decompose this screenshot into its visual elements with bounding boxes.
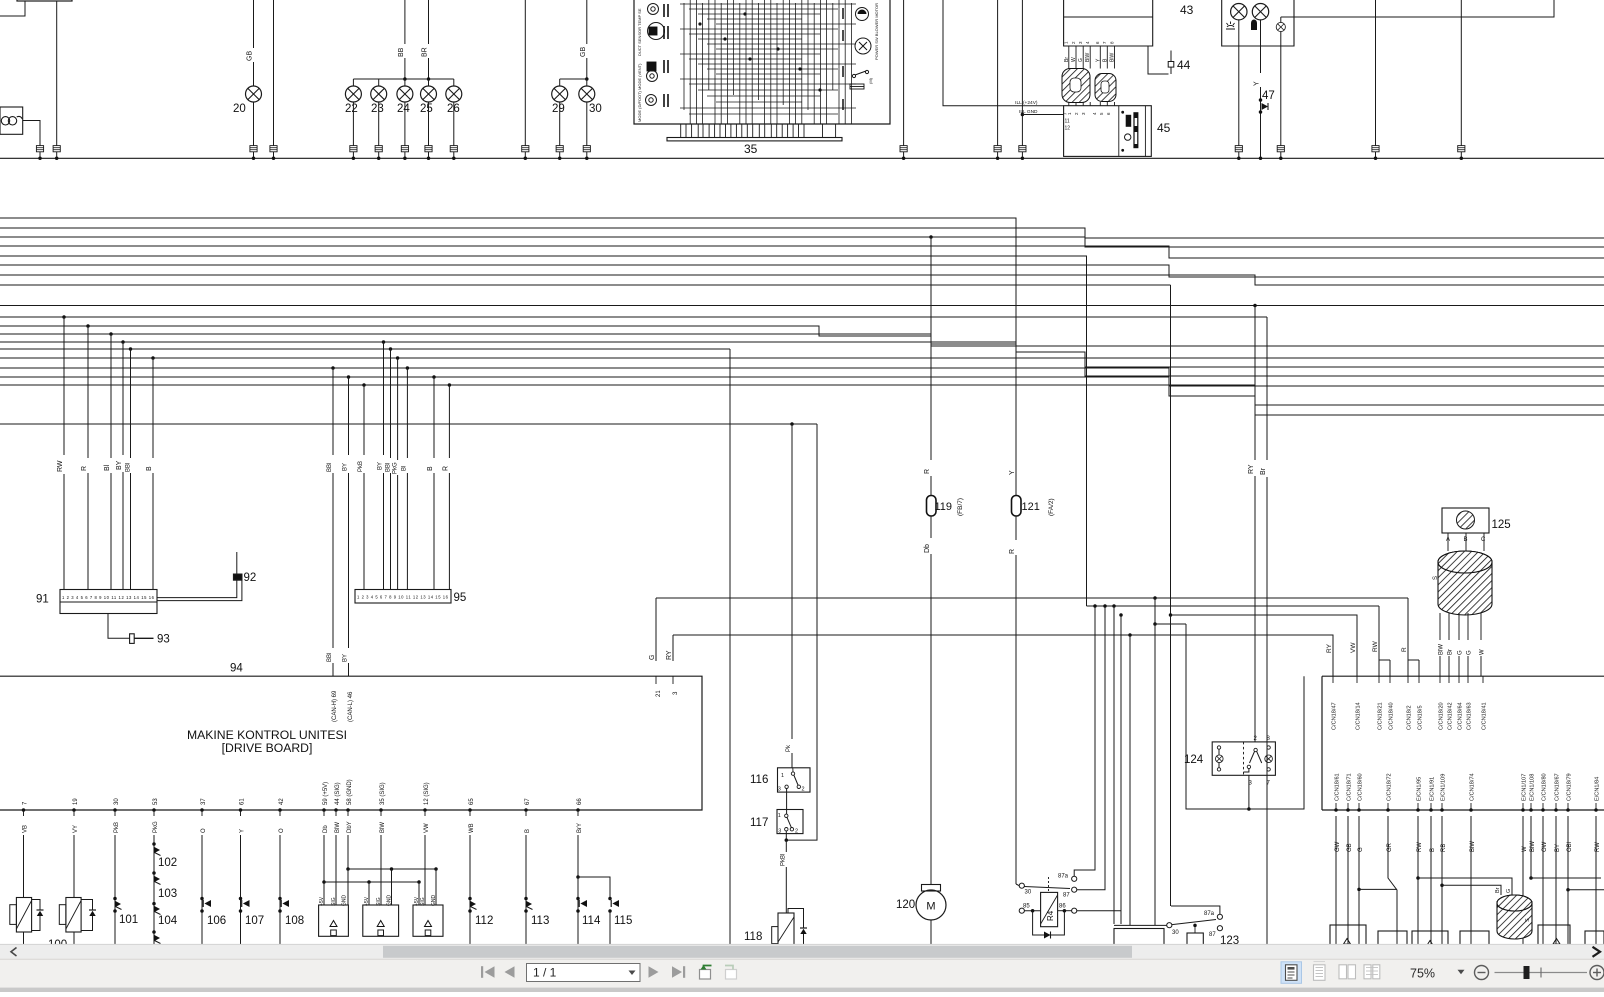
svg-text:C/CN18/71: C/CN18/71: [1347, 773, 1353, 801]
wire Bl to connector 95: [406, 366, 410, 370]
load box 6: [1585, 931, 1604, 950]
svg-text:113: 113: [531, 915, 549, 927]
block 35 internal wiring mesh: [680, 0, 856, 124]
svg-text:Db: Db: [323, 825, 329, 833]
toolbar next view icon disabled: [726, 970, 737, 980]
load box 4: [1460, 931, 1489, 950]
wire x525 to ground bus: [524, 0, 526, 146]
svg-text:43: 43: [1180, 3, 1194, 17]
wire GB to lamp 20: [253, 0, 255, 48]
cluster lamp 1: [1231, 4, 1247, 20]
svg-text:E/CN1/84: E/CN1/84: [1595, 777, 1601, 801]
harness wire B4: [0, 334, 1604, 358]
wire BlW SIG 2: [380, 835, 382, 905]
wire 87a up: [1074, 606, 1095, 876]
svg-text:VW: VW: [424, 823, 430, 833]
svg-text:C/CN18/20: C/CN18/20: [1439, 702, 1445, 730]
scrollbar thumb: [383, 946, 1132, 958]
svg-text:BY: BY: [378, 462, 384, 470]
wire GB down: [1347, 816, 1349, 950]
wire BY to connector 95: [382, 340, 386, 344]
wire VB down to actuator: [23, 835, 25, 898]
svg-text:75%: 75%: [1410, 967, 1435, 981]
connector 92: [234, 574, 242, 580]
svg-text:B: B: [525, 829, 531, 833]
svg-text:BBl: BBl: [386, 463, 392, 472]
wire VW SIG 3: [424, 835, 426, 905]
toolbar page number box: [527, 964, 641, 982]
svg-text:WB: WB: [469, 823, 475, 833]
svg-text:24: 24: [397, 103, 410, 115]
svg-text:C/CN18/5: C/CN18/5: [1418, 705, 1424, 730]
toolbar zoom slider: [1495, 972, 1588, 974]
svg-text:59 (+5V): 59 (+5V): [323, 782, 329, 805]
svg-text:R4: R4: [1046, 910, 1055, 921]
toolbar background: [0, 959, 1604, 992]
lamp 30: [579, 86, 595, 102]
wire R to connector 95: [448, 383, 452, 387]
harness wire B5: [0, 342, 1604, 367]
harness wire B1 (RY): [0, 305, 1604, 307]
svg-text:MODE (D/FOOT): MODE (D/FOOT): [637, 90, 642, 122]
wire connector 91 to 93: [108, 614, 130, 639]
connector 95: [355, 590, 451, 604]
svg-text:RW: RW: [57, 460, 64, 472]
svg-text:Y: Y: [1254, 81, 1261, 86]
wire BBl to connector 95: [389, 347, 393, 351]
lamp 25: [421, 86, 437, 102]
svg-text:MAKINE KONTROL UNITESI: MAKINE KONTROL UNITESI: [187, 728, 347, 742]
svg-text:101: 101: [119, 914, 138, 926]
lamp 29: [552, 86, 568, 102]
svg-text:C/CN18/61: C/CN18/61: [1335, 773, 1341, 801]
svg-text:C/CN18/72: C/CN18/72: [1387, 773, 1393, 801]
svg-text:BB: BB: [398, 47, 405, 57]
diode chain 102 103 104: [153, 835, 155, 950]
wire RB down with branch to cylinder: [1441, 816, 1443, 950]
harness wire B2 (Br): [0, 316, 1267, 318]
svg-text:C/CN18/63: C/CN18/63: [1467, 702, 1473, 730]
wire RY drop to connector 124: [1254, 306, 1256, 461]
wire col 1130 down: [1128, 633, 1132, 637]
wire R to connector 91: [86, 324, 90, 328]
svg-text:GB: GB: [580, 47, 587, 57]
svg-text:(M): (M): [868, 77, 873, 84]
svg-text:E/CN1/107: E/CN1/107: [1522, 774, 1528, 801]
block 35 bottom pin wires: [681, 124, 836, 138]
wire 87a of 123 up: [1171, 906, 1220, 914]
svg-text:PkG: PkG: [393, 462, 399, 474]
wire RW 84 down: [1595, 816, 1597, 950]
connector 93: [130, 634, 135, 644]
cluster icon bulb: [1251, 20, 1257, 31]
svg-text:66: 66: [577, 798, 583, 805]
control panel block 35 outline: [634, 0, 890, 124]
wire OBl down: [1567, 816, 1569, 950]
svg-text:GND: GND: [387, 895, 393, 907]
wire 86 right: [1077, 615, 1121, 911]
toolbar two page continuous icon: [1364, 965, 1371, 979]
wire ILL +24V: [943, 0, 1064, 106]
svg-text:C/CN18/80: C/CN18/80: [1542, 773, 1548, 801]
svg-text:106: 106: [207, 915, 226, 927]
wire PkBl to 118: [785, 831, 787, 840]
block 35 left side sensor icons: [646, 4, 669, 108]
fuse 119: [927, 496, 937, 517]
wire RW to connector 91: [62, 315, 66, 319]
cluster icon light: [1226, 22, 1235, 30]
wire x817 drop to 117 pin 2: [786, 424, 817, 840]
svg-text:(CAN-H) 69: (CAN-H) 69: [332, 690, 338, 722]
svg-text:E/CN1/95: E/CN1/95: [1417, 777, 1423, 801]
wire ILL GND: [1021, 0, 1023, 146]
svg-text:45: 45: [1157, 121, 1171, 135]
svg-text:BlW: BlW: [1439, 644, 1445, 655]
relay R4 pins: [1019, 883, 1024, 888]
wires shield connector to pins: [1439, 613, 1445, 676]
toolbar last page button: [672, 966, 682, 978]
sensor unit 2: [363, 905, 399, 936]
svg-text:121: 121: [1022, 501, 1040, 513]
actuator 100a: [16, 898, 31, 933]
U-wire via 1186: [1186, 624, 1304, 809]
svg-text:116: 116: [750, 774, 768, 786]
svg-text:30: 30: [589, 103, 602, 115]
wire BB feed to lamps 22-26: [404, 0, 406, 44]
wire BY down: [1555, 816, 1557, 950]
wire BY CAN-L: [347, 375, 351, 379]
svg-text:W: W: [1071, 57, 1077, 62]
svg-text:104: 104: [158, 915, 178, 927]
cluster lamp 2: [1252, 4, 1268, 20]
wire cluster lamp3 to ground bus: [1280, 32, 1282, 146]
svg-text:47: 47: [1262, 90, 1275, 102]
wire B down: [1430, 816, 1432, 950]
svg-text:(FA/2): (FA/2): [1048, 498, 1055, 516]
switch 123: [1167, 923, 1172, 928]
svg-text:SIG: SIG: [331, 897, 337, 906]
svg-text:103: 103: [158, 888, 177, 900]
G line to R pins: [656, 597, 1408, 599]
svg-text:95: 95: [454, 592, 467, 604]
svg-text:C/CN18/2: C/CN18/2: [1407, 705, 1413, 730]
wire B to connector 95: [432, 375, 436, 379]
connector 91: [60, 590, 157, 614]
wire B to connector 91: [151, 356, 155, 360]
wire buzzer to ground bus: [23, 121, 40, 146]
wire cluster lamp1 to ground bus: [1238, 20, 1240, 146]
svg-text:2: 2: [802, 787, 805, 793]
lamp 23: [371, 86, 387, 102]
harness wire A3 (R): [0, 237, 1604, 247]
svg-text:44: 44: [1177, 58, 1191, 72]
svg-text:92: 92: [244, 572, 257, 584]
svg-text:BlW: BlW: [1110, 53, 1116, 62]
svg-text:25: 25: [420, 103, 433, 115]
svg-text:R: R: [1401, 647, 1408, 652]
svg-text:35 (SIG): 35 (SIG): [380, 782, 386, 805]
wire top-left unit down to ground bus: [56, 1, 58, 146]
toolbar single page view icon selected: [1281, 962, 1302, 984]
horizontal scrollbar track: [0, 944, 1604, 959]
GND link wire: [348, 868, 436, 870]
svg-text:E/CN1/109: E/CN1/109: [1441, 774, 1447, 801]
svg-text:112: 112: [475, 915, 493, 927]
tie wire lamps 29-30: [560, 78, 587, 80]
load box 1: [1330, 925, 1366, 950]
svg-text:120: 120: [896, 899, 915, 911]
svg-text:ILL (+24V): ILL (+24V): [1015, 100, 1038, 106]
unit 45 internal parts: [1126, 115, 1132, 127]
+5V link wire: [324, 881, 419, 883]
wire GW down: [1335, 816, 1337, 950]
connector block C/CN18 top edge: [1321, 676, 1323, 810]
svg-text:RY: RY: [1248, 464, 1255, 474]
svg-text:G: G: [1506, 889, 1512, 893]
svg-text:C/CN18/41: C/CN18/41: [1482, 702, 1488, 730]
svg-text:(FB/7): (FB/7): [957, 498, 964, 516]
wire 43 to diode 44: [1148, 46, 1169, 74]
toolbar zoom out button: [1475, 966, 1489, 980]
wire col 1170 down to switch 123: [1170, 615, 1172, 906]
wire from top-left unit to left edge: [0, 1, 25, 16]
wire OW down: [1542, 816, 1544, 950]
wire col 1121 lower: [1120, 911, 1122, 924]
svg-text:BBl: BBl: [126, 463, 132, 472]
relay R4 diode loop: [1033, 911, 1065, 935]
harness wire A7: [0, 275, 1604, 285]
wire x273 to ground bus: [273, 0, 275, 146]
svg-text:PkG: PkG: [153, 821, 159, 833]
wire R drop to fuse 119: [930, 237, 932, 460]
wire x1375 to ground bus: [1375, 0, 1377, 146]
wire G down with branch: [1358, 816, 1360, 950]
harness wire A5 (feeder): [0, 256, 1087, 606]
connector 124: [1212, 742, 1275, 775]
wire BR feed: [428, 0, 430, 44]
svg-text:117: 117: [750, 817, 768, 829]
svg-text:Y: Y: [239, 829, 245, 833]
lamp 26: [446, 86, 462, 102]
svg-text:DbY: DbY: [347, 821, 353, 833]
harness wire B6: [0, 348, 730, 350]
svg-text:S: S: [1433, 576, 1439, 580]
pins 1-8 of unit 43: [1068, 46, 1070, 69]
svg-text:BR: BR: [422, 47, 429, 57]
diodes 114 115: [577, 835, 579, 877]
svg-text:GND: GND: [431, 895, 437, 907]
svg-text:B: B: [146, 466, 153, 471]
wire BBl CAN-H: [331, 366, 335, 370]
svg-text:S: S: [1525, 918, 1531, 922]
svg-text:G: G: [1467, 650, 1473, 655]
svg-text:1: 1: [778, 813, 781, 819]
svg-text:37: 37: [201, 798, 207, 805]
svg-text:102: 102: [158, 857, 177, 869]
wire Pk to switch 116: [791, 424, 793, 739]
lamp 24: [397, 86, 413, 102]
svg-text:ILL GND: ILL GND: [1019, 109, 1038, 115]
svg-text:C: C: [1481, 537, 1486, 543]
svg-text:DUCT SENSOR: DUCT SENSOR: [637, 27, 642, 56]
svg-text:C/CN18/74: C/CN18/74: [1470, 773, 1476, 801]
cluster small lamp 3: [1276, 22, 1285, 31]
svg-text:BlW: BlW: [1085, 53, 1091, 62]
feeder to VW pin: [1171, 615, 1358, 676]
diode 107: [240, 835, 242, 950]
feeder wire col 1085 to RW pins: [1087, 605, 1380, 607]
svg-text:PkB: PkB: [358, 461, 364, 472]
svg-text:20: 20: [233, 103, 246, 115]
svg-text:GB: GB: [247, 51, 254, 61]
svg-text:R: R: [81, 466, 88, 471]
svg-text:MODE (VENT): MODE (VENT): [637, 63, 642, 90]
diode 106: [201, 835, 203, 950]
svg-text:35: 35: [744, 142, 758, 156]
left boxes near 123: [1114, 929, 1164, 951]
svg-text:30: 30: [1172, 930, 1179, 936]
hatched grommet connector right: [1095, 74, 1116, 102]
svg-text:R: R: [1009, 549, 1016, 554]
harness wire B3: [0, 326, 1604, 346]
hatched grommet connector left: [1062, 69, 1090, 103]
svg-text:1 2 3 4 5 6 7 8 9 10 11 12 13: 1 2 3 4 5 6 7 8 9 10 11 12 13 14 15 16: [357, 595, 449, 600]
shielded connector cylinder bottom: [1497, 895, 1532, 939]
lamp 22: [345, 86, 361, 102]
load box 2: [1378, 931, 1407, 950]
load box 3: [1412, 931, 1448, 950]
svg-text:Br: Br: [1260, 467, 1267, 475]
wire 124 pin 3 down: [1248, 775, 1250, 809]
svg-text:58 (GND): 58 (GND): [347, 779, 353, 805]
svg-text:BBl: BBl: [327, 653, 333, 662]
component 44: [1170, 51, 1172, 62]
svg-text:M: M: [926, 901, 935, 913]
drive board bottom pins and wire labels: [22, 801, 29, 833]
svg-text:C/CN18/64: C/CN18/64: [1458, 702, 1464, 730]
sensor unit 3: [413, 905, 443, 936]
svg-text:115: 115: [614, 915, 632, 927]
wire connector 91 to 92: [157, 552, 237, 598]
wire 87 fan: [1077, 606, 1105, 890]
speaker unit 125: [1442, 508, 1489, 533]
harness wire A4: [0, 246, 1604, 258]
wire x730 drop: [729, 349, 731, 950]
svg-text:23: 23: [371, 103, 384, 115]
svg-text:42: 42: [279, 798, 285, 805]
wire Br through 124 down: [1266, 744, 1268, 950]
svg-text:119: 119: [935, 501, 953, 513]
toolbar two page view icon: [1339, 965, 1347, 979]
svg-text:BY: BY: [343, 463, 349, 471]
wire BlW SIG 1: [335, 835, 337, 905]
svg-text:PkB: PkB: [114, 822, 120, 833]
harness wire A8 (feeder): [0, 284, 1171, 286]
wire DbY GND feed: [347, 835, 349, 869]
wire x903 to ground bus: [903, 0, 905, 146]
harness wire B11: [0, 423, 817, 425]
wire motor 120 down: [930, 920, 932, 950]
R pin bridge: [1408, 598, 1419, 660]
svg-text:BY: BY: [116, 460, 123, 470]
svg-text:1: 1: [781, 773, 784, 779]
wire col 1114 down: [1112, 604, 1116, 608]
ground bus wire top section: [0, 157, 1604, 159]
svg-text:(CAN-L) 46: (CAN-L) 46: [348, 691, 354, 722]
RW pin bridge: [1379, 606, 1390, 660]
svg-text:44 (SIG): 44 (SIG): [335, 782, 341, 805]
svg-text:POWER SW BLOWER MOTOR: POWER SW BLOWER MOTOR: [874, 3, 879, 60]
wire Db from fuse 119 to motor 120: [930, 516, 932, 538]
wire Db +5V feed: [323, 835, 325, 905]
indicator lamp box outline: [1222, 0, 1294, 46]
svg-text:B: B: [1464, 537, 1468, 543]
svg-text:53: 53: [153, 798, 159, 805]
svg-text:BY: BY: [343, 654, 349, 662]
harness wire A2: [0, 228, 1604, 238]
svg-text:O: O: [201, 828, 207, 833]
harness wire B7: [0, 358, 1604, 376]
harness wire B9: [0, 377, 1604, 405]
svg-text:87: 87: [1063, 893, 1070, 899]
motor 120: [922, 885, 941, 892]
branch wires right: [1531, 877, 1601, 879]
wire R from fuse 121 to relay R4: [1015, 516, 1017, 540]
diode 112: [469, 835, 471, 950]
feeder col 1155: [1153, 596, 1157, 600]
junction dots on ground bus: [38, 157, 42, 161]
solenoid 118: [778, 913, 794, 946]
svg-text:C/CN18/14: C/CN18/14: [1356, 702, 1362, 730]
scrollbar right arrow: [1593, 947, 1601, 957]
svg-text:VY: VY: [73, 825, 79, 833]
svg-text:RW: RW: [1372, 640, 1379, 652]
svg-text:TEMP SE: TEMP SE: [637, 8, 642, 26]
svg-text:30: 30: [1025, 890, 1032, 896]
wire BY to connector 91: [121, 340, 125, 344]
diode 113: [525, 835, 527, 950]
svg-text:2: 2: [795, 829, 798, 835]
load box 5: [1538, 925, 1570, 950]
svg-text:C/CN18/79: C/CN18/79: [1567, 773, 1573, 801]
feeder wire col 1170: [1170, 285, 1172, 615]
wire x1461 to ground bus: [1460, 0, 1462, 146]
svg-text:61: 61: [240, 798, 246, 805]
svg-text:30: 30: [114, 798, 120, 805]
relay R4 coil connections: [1024, 910, 1040, 912]
svg-text:1 / 1: 1 / 1: [533, 966, 557, 980]
wire col 1155 down to 123 area: [1154, 624, 1156, 925]
harness wire A1 (Y): [0, 218, 1016, 495]
svg-text:93: 93: [157, 634, 170, 646]
svg-text:W: W: [1480, 649, 1486, 655]
svg-text:RY: RY: [1326, 643, 1333, 653]
harness wire B8: [0, 368, 1604, 386]
svg-text:107: 107: [245, 915, 264, 927]
svg-text:C/CN18/47: C/CN18/47: [1332, 702, 1338, 730]
tie wire lamps 22-26: [353, 78, 453, 80]
svg-text:87: 87: [1209, 932, 1216, 938]
toolbar previous page button: [505, 966, 515, 978]
lamp 20: [246, 86, 262, 102]
svg-text:11: 11: [1065, 119, 1070, 125]
svg-text:108: 108: [285, 915, 304, 927]
wires 125 to shield connector: [1447, 533, 1449, 551]
svg-text:PkBl: PkBl: [780, 854, 786, 866]
svg-text:SIG: SIG: [420, 897, 426, 906]
switch 123 feed wire: [1114, 924, 1167, 926]
svg-text:BrY: BrY: [577, 823, 583, 833]
